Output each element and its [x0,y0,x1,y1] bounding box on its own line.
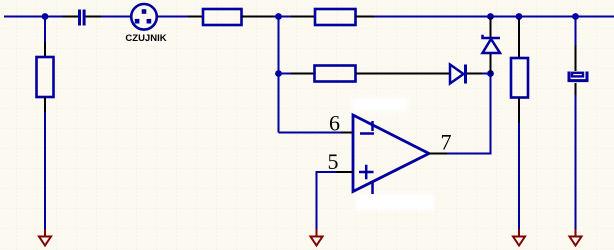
resistor R3 [37,57,54,97]
wire node D down [575,19,577,45]
svg-text:CZUJNIK: CZUJNIK [125,33,166,44]
wire: left branch down [44,17,46,43]
svg-text:7: 7 [441,130,452,155]
wire connector to R1 [157,16,188,18]
node at left branch [42,13,49,20]
svg-text:6: 6 [329,111,340,136]
capacitor C1 left pin [62,16,78,18]
ground GND3 [513,229,525,246]
wire to ground far right [575,95,577,229]
white patch above op-amp [352,98,408,111]
zener D2 bottom pin [490,54,492,74]
wire pin5 to ground [317,171,337,229]
resistor R4 [315,66,356,82]
ground GND4 [570,229,582,246]
capacitor C1 right pin [86,16,101,18]
wire to ground left [44,112,46,229]
ground GND1 [39,229,51,246]
node D junction [572,13,579,20]
capacitor C1 [78,10,86,26]
op-amp U1 pin 7 output stub [429,153,447,155]
resistor R3 top pin [44,42,46,57]
resistor R4 left pin [291,73,315,75]
wire: top net left segment [4,16,62,18]
diode D1 cathode pin [467,73,482,75]
capacitor C2 bottom pin [575,83,577,95]
resistor R5 top pin [518,19,520,58]
wire node E to R4 [281,73,291,75]
wire to op-amp pin 6 [279,132,342,134]
resistor R1 right pin [242,16,275,18]
resistor R1 [203,9,242,25]
zener D2 [483,35,501,53]
node A junction [275,13,282,20]
wire: middle vertical from node A [278,17,280,133]
resistor R4 right pin / wire to diode [356,73,451,75]
wire output to node F [447,74,491,155]
diode D1 [450,65,466,84]
node B junction [487,13,494,20]
node F junction [487,70,494,77]
resistor R2 [315,9,356,25]
white patch below op-amp [356,194,434,210]
wire into node A [274,16,291,18]
ground GND2 [311,229,323,246]
wire to node F [482,73,491,75]
op-amp U1 pin 5 stub [336,171,353,173]
capacitor C2 top pin [575,45,577,71]
wire: top net right segment [374,16,614,18]
capacitor C2 (polarized) [569,72,587,81]
zener D2 top pin [490,18,492,37]
resistor R5 [511,58,528,98]
resistor R2 left pin [291,16,315,18]
wire to ground right [518,123,520,229]
resistor R3 bottom pin [44,97,46,112]
op-amp U1 pin 6 stub [341,132,353,134]
node E junction [275,70,282,77]
wire to connector [101,16,131,18]
resistor R5 bottom pin [518,98,520,124]
svg-text:5: 5 [328,149,339,174]
resistor R2 right pin [356,16,375,18]
node C junction [516,13,523,20]
connector CZUJNIK [131,4,157,30]
resistor R1 left pin [188,16,203,18]
op-amp U1 [353,115,429,194]
